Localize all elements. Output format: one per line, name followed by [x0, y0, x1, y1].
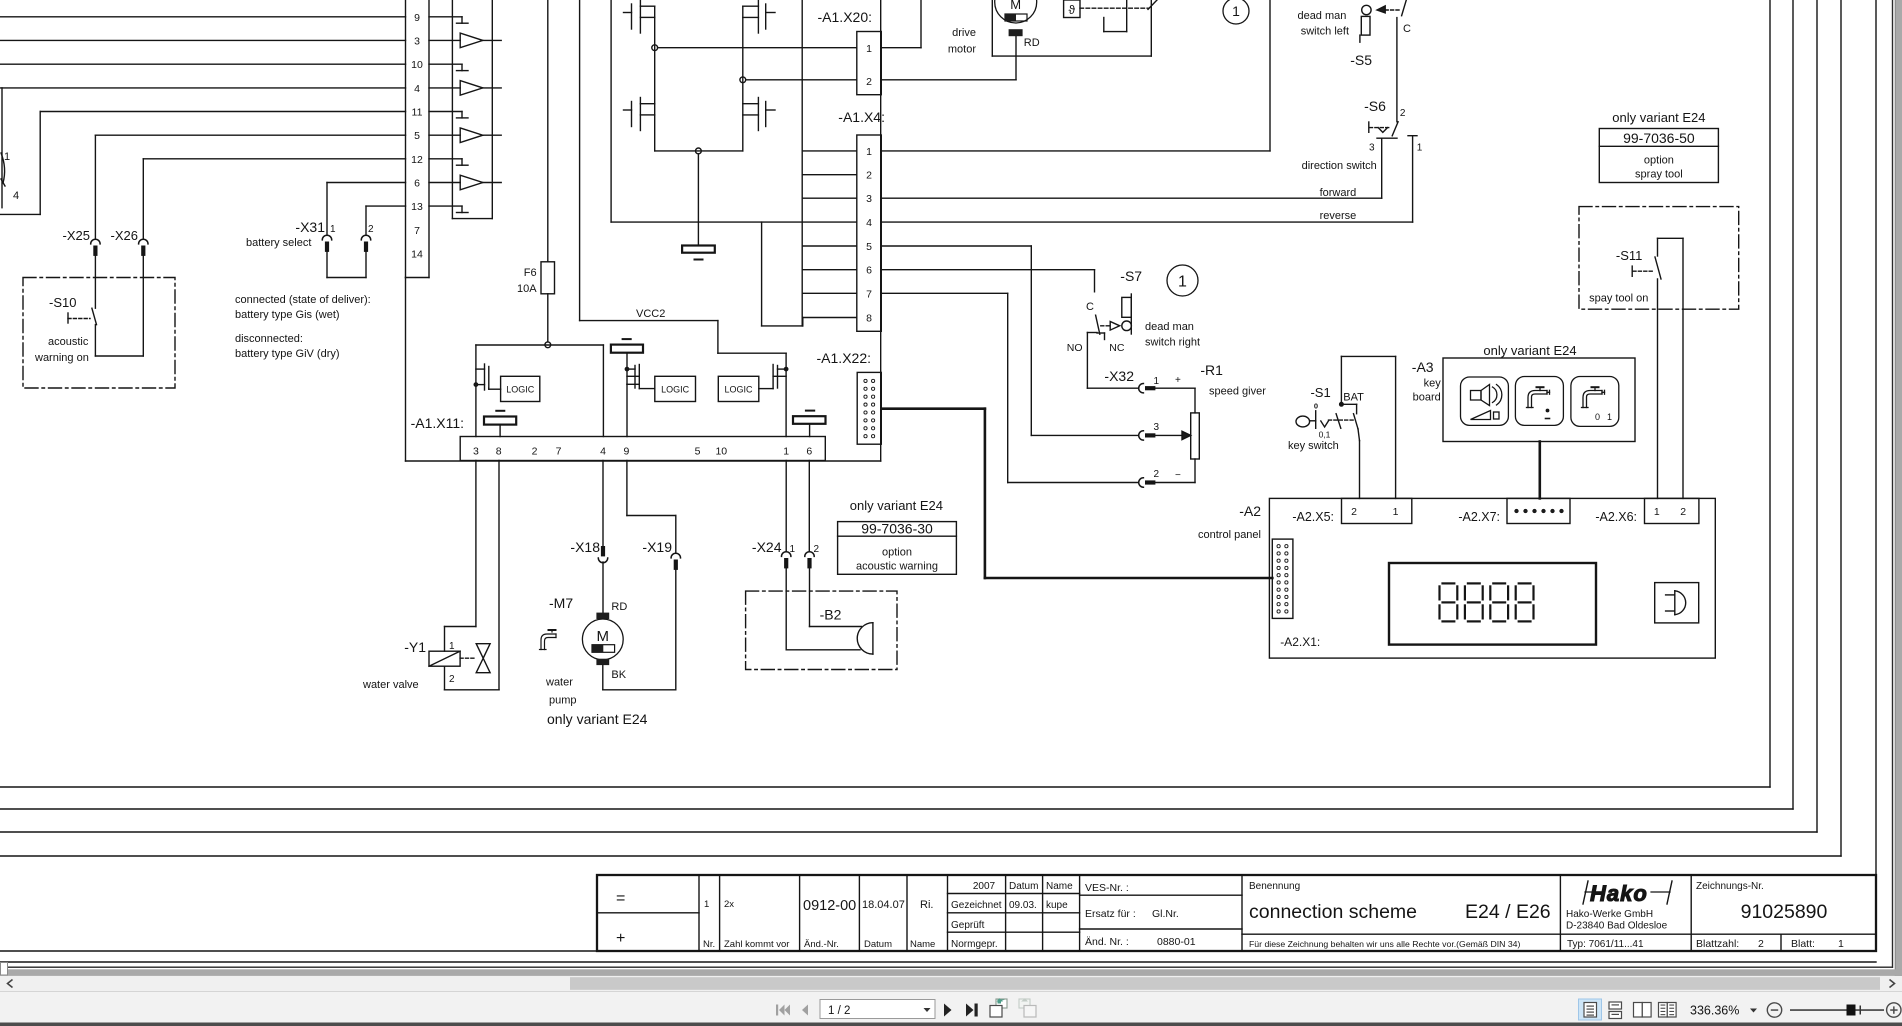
wire A1.X11 pin3 to Y1 [445, 461, 476, 652]
motor M7 water pump [545, 595, 627, 707]
svg-text:M: M [1010, 0, 1021, 12]
wire internal bus (cut at top) [611, 0, 803, 326]
svg-text:connection scheme: connection scheme [1249, 901, 1417, 923]
svg-text:Änd.-Nr.: Änd.-Nr. [804, 939, 839, 950]
keyboard button water dose [1515, 377, 1563, 426]
svg-text:-A2: -A2 [1239, 503, 1261, 519]
wire X18 to M7 [602, 562, 604, 613]
svg-text:3: 3 [473, 446, 479, 458]
clamp symbol input pin 12 [429, 159, 468, 165]
svg-text:Gezeichnet: Gezeichnet [951, 900, 1002, 911]
logic block U3 [718, 376, 759, 401]
svg-text:1: 1 [1417, 143, 1423, 154]
svg-text:switch left: switch left [1301, 26, 1349, 38]
svg-text:RD: RD [611, 601, 627, 613]
svg-text:18.04.07: 18.04.07 [862, 899, 905, 911]
svg-text:6: 6 [806, 446, 812, 458]
svg-text:0880-01: 0880-01 [1157, 936, 1196, 948]
svg-text:acoustic warning: acoustic warning [856, 561, 938, 573]
svg-text:1: 1 [704, 899, 709, 910]
svg-text:spay tool on: spay tool on [1589, 293, 1648, 305]
svg-text:-A3: -A3 [1412, 359, 1434, 375]
svg-text:-X26: -X26 [111, 228, 138, 243]
svg-text:RD: RD [1024, 37, 1040, 49]
svg-text:2: 2 [866, 76, 872, 88]
svg-text:option: option [1644, 155, 1674, 167]
wire A1.X22 to A2.X1 (ribbon, thick) [881, 409, 1272, 578]
connector X32 [1104, 368, 1181, 487]
key switch S1 [1288, 385, 1364, 452]
connector A2.X7 [1458, 498, 1570, 524]
svg-text:Blatt:: Blatt: [1791, 938, 1815, 950]
svg-text:91025890: 91025890 [1741, 901, 1828, 923]
junction H-bridge left output [652, 45, 658, 51]
svg-text:5: 5 [695, 446, 701, 458]
svg-text:2: 2 [1351, 506, 1357, 518]
svg-text:BK: BK [611, 669, 626, 681]
border line 1 [0, 0, 1770, 787]
svg-text:disconnected:: disconnected: [235, 333, 303, 345]
wire pin4 net [0, 88, 406, 208]
svg-text:reverse: reverse [1320, 210, 1357, 222]
transistor logic cell 2 [625, 365, 655, 389]
wire A1.X4 pin7 to X32.2 [881, 293, 1007, 482]
svg-text:1: 1 [866, 146, 872, 158]
svg-text:1: 1 [1393, 506, 1399, 518]
wire A1.X20 pin1 to drive motor + [658, 0, 921, 48]
connector A1.X11 [411, 415, 826, 461]
buffer symbol input pin 4 [429, 81, 501, 96]
svg-text:Nr.: Nr. [703, 939, 715, 950]
svg-text:key: key [1424, 378, 1442, 390]
svg-text:09.03.: 09.03. [1009, 900, 1037, 911]
wire pin5 to X25 [95, 135, 405, 238]
horn B2 [820, 607, 873, 655]
svg-text:only variant E24: only variant E24 [850, 498, 943, 513]
wire X24.2 to B2 [810, 569, 862, 627]
transistor Q3 (H-bridge lower left) [624, 98, 655, 131]
svg-text:spray tool: spray tool [1635, 169, 1683, 181]
svg-text:Hako: Hako [1590, 881, 1648, 906]
wire A1.X11 pin3 drain line [475, 345, 477, 437]
wire right leg to A2.X6 pin2 [1682, 238, 1684, 498]
transistor logic cell 1 [474, 364, 500, 390]
svg-text:3: 3 [1369, 143, 1375, 154]
capacitor symbol C2 [611, 339, 643, 384]
relay coil Y1 water valve [362, 639, 460, 691]
indicator lamp icon on A2 [1655, 583, 1699, 623]
wire A1.X11 pin4 to X18 [602, 461, 604, 547]
clamp symbol input pin 13 [429, 206, 468, 212]
svg-text:-X31: -X31 [295, 219, 325, 235]
wire S1 to A2.X5 pin2 [1358, 429, 1360, 499]
svg-text:Name: Name [910, 939, 935, 950]
svg-text:LOGIC: LOGIC [724, 385, 753, 395]
capacitor symbol C3 [793, 411, 826, 437]
keyboard button water on/off [1571, 377, 1619, 427]
wire X32 pin2 to R1 bottom [1008, 459, 1195, 483]
wire S11 left leg to A2.X6 pin1 [1657, 279, 1659, 498]
svg-text:LOGIC: LOGIC [661, 385, 690, 395]
svg-text:-A2.X1:: -A2.X1: [1280, 635, 1320, 649]
svg-text:14: 14 [411, 248, 423, 260]
wire M7 BK to X19 [603, 570, 676, 690]
motor M (drive motor, top cut off) [948, 0, 1151, 56]
svg-text:4: 4 [866, 217, 872, 229]
7-segment digits [1440, 583, 1534, 621]
wire H-bridge bottom rail [655, 150, 743, 152]
svg-text:dead man: dead man [1297, 10, 1346, 22]
svg-text:-Y1: -Y1 [404, 639, 426, 655]
connector X26 [111, 228, 148, 256]
wire A1.X11 pin6 to X24.2 [808, 461, 810, 552]
connector X31 battery select [246, 219, 374, 252]
svg-text:Änd. Nr. :: Änd. Nr. : [1085, 936, 1129, 948]
wire ground lead [697, 154, 699, 246]
transistor Q1 (H-bridge upper left) [624, 0, 655, 33]
svg-text:Für diese Zeichnung behalten w: Für diese Zeichnung behalten wir uns all… [1249, 939, 1520, 949]
svg-text:Blattzahl:: Blattzahl: [1696, 938, 1739, 950]
svg-text:-X25: -X25 [63, 228, 90, 243]
wire pin10 net [0, 63, 406, 65]
svg-text:2: 2 [866, 170, 872, 182]
svg-text:=: = [616, 890, 625, 907]
svg-text:motor: motor [948, 44, 976, 56]
svg-text:-S1: -S1 [1310, 385, 1330, 400]
toolbar controls [776, 998, 1901, 1020]
connector A1.X22 [817, 350, 882, 444]
switch fragment at left page edge, contacts 1 and 4 [1, 151, 19, 202]
svg-text:-A2.X7:: -A2.X7: [1458, 510, 1500, 524]
svg-text:12: 12 [411, 154, 423, 166]
clamp symbol input pin 10 [429, 64, 468, 70]
svg-text:-B2: -B2 [820, 607, 842, 623]
switch S7 dead man switch right [1067, 268, 1200, 388]
connector X24 [752, 539, 820, 568]
svg-text:6: 6 [866, 265, 872, 277]
note circled 1 (top) [1223, 0, 1249, 24]
svg-text:board: board [1413, 392, 1441, 404]
svg-text:-X24: -X24 [752, 539, 782, 555]
switch S11 spray tool on [1589, 248, 1661, 305]
buffer symbol input pin 3 [429, 33, 501, 48]
wire pin9 net [0, 16, 406, 18]
svg-text:Benennung: Benennung [1249, 881, 1300, 892]
svg-text:battery select: battery select [246, 237, 311, 249]
connector A1.X4 [838, 109, 885, 331]
svg-text:option: option [882, 547, 912, 559]
svg-text:-A1.X11:: -A1.X11: [411, 415, 464, 431]
transistor logic cell 3 [759, 365, 788, 389]
svg-text:Ersatz für :: Ersatz für : [1085, 908, 1136, 920]
note circled 1 (near S7) [1167, 265, 1198, 296]
svg-text:1: 1 [330, 224, 336, 235]
switch S10 [34, 295, 97, 364]
svg-text:2x: 2x [724, 899, 734, 910]
wire internal vertical (cut at top) [801, 0, 803, 326]
svg-text:kupe: kupe [1046, 900, 1068, 911]
wire pin12 to X26 [143, 159, 405, 239]
wire A1.X4 pin1 (to top, cut) [881, 0, 1270, 151]
svg-text:0,1: 0,1 [1319, 430, 1331, 440]
svg-text:acoustic: acoustic [48, 336, 89, 348]
svg-text:-A1.X20:: -A1.X20: [818, 9, 872, 25]
svg-text:1: 1 [449, 641, 455, 652]
svg-text:10: 10 [715, 446, 727, 458]
wire S11 loop top [1658, 238, 1684, 256]
svg-text:1: 1 [1178, 274, 1187, 291]
svg-text:dead man: dead man [1145, 321, 1194, 333]
junction F6 to gate rail [545, 342, 551, 348]
wire X24.1 to B2 [786, 569, 860, 650]
svg-text:0: 0 [1595, 412, 1600, 422]
svg-text:BAT: BAT [1343, 392, 1364, 404]
svg-text:-A2.X5:: -A2.X5: [1292, 510, 1334, 524]
svg-text:only variant E24: only variant E24 [1612, 110, 1705, 125]
valve symbol (bowtie) [460, 644, 490, 673]
logic block U1 [501, 376, 540, 401]
svg-text:99-7036-50: 99-7036-50 [1623, 130, 1695, 146]
labels direction switch forward reverse [1302, 160, 1377, 222]
svg-text:forward: forward [1320, 187, 1357, 199]
svg-text:pump: pump [549, 695, 577, 707]
svg-text:-X32: -X32 [1104, 368, 1134, 384]
svg-text:Normgepr.: Normgepr. [951, 939, 998, 950]
border line 3 [0, 0, 1817, 832]
svg-text:2007: 2007 [973, 881, 996, 892]
svg-text:1: 1 [1607, 412, 1612, 422]
svg-text:speed giver: speed giver [1209, 386, 1266, 398]
wire pin3 net [0, 39, 406, 41]
svg-text:1: 1 [1232, 3, 1240, 19]
svg-text:Hako-Werke GmbH: Hako-Werke GmbH [1566, 909, 1653, 920]
wire pin13 to X31.2 [366, 206, 406, 234]
transistor Q2 (H-bridge upper right) [743, 0, 775, 33]
svg-text:2: 2 [1154, 469, 1160, 480]
wire S6 pin1 to reverse [1412, 136, 1414, 222]
connector X19 [642, 539, 680, 570]
wire A1.X4 pin6 to S7 common [881, 270, 1094, 292]
clamp symbol input pin 11 [429, 112, 468, 118]
svg-text:2: 2 [1680, 506, 1686, 518]
svg-text:-M7: -M7 [549, 595, 573, 611]
svg-text:5: 5 [866, 241, 872, 253]
svg-text:4: 4 [13, 190, 19, 202]
svg-text:−: − [1175, 470, 1181, 481]
buffer symbol input pin 6 [429, 175, 501, 190]
display 8888 on A2 [1389, 563, 1596, 645]
svg-text:1: 1 [1654, 506, 1660, 518]
svg-text:Datum: Datum [1009, 881, 1038, 892]
svg-text:1: 1 [4, 151, 10, 163]
option box spray tool with S11 [1579, 207, 1739, 310]
svg-text:F6: F6 [524, 267, 537, 279]
connector A1.X21 (left multi-pin connector, top cut off) [406, 0, 430, 278]
svg-text:water valve: water valve [362, 679, 419, 691]
svg-text:-S6: -S6 [1364, 98, 1386, 114]
wire S7 NO to X32 pin1 [1087, 387, 1138, 389]
fuse F6 10A [517, 0, 554, 342]
svg-text:Zahl kommt vor: Zahl kommt vor [724, 939, 789, 950]
svg-text:Zeichnungs-Nr.: Zeichnungs-Nr. [1696, 881, 1764, 892]
option box B2 acoustic warner [746, 591, 897, 669]
svg-text:battery type Gis (wet): battery type Gis (wet) [235, 309, 340, 321]
label box option acoustic warning 99-7036-30 [838, 498, 957, 574]
wire gate rail (A1.X11 pin4 up and over) [476, 345, 604, 437]
svg-text:VCC2: VCC2 [636, 308, 665, 320]
svg-text:3: 3 [414, 35, 420, 47]
junction H-bridge right output [740, 77, 746, 83]
connector X25 [63, 228, 101, 256]
connector A2.X5 [1292, 498, 1411, 524]
svg-text:-S11: -S11 [1616, 248, 1643, 263]
wire A3 keyboard to A2.X7 (thick) [1539, 442, 1542, 499]
svg-text:key switch: key switch [1288, 440, 1339, 452]
buffer symbol input pin 5 [429, 128, 501, 143]
svg-text:warning on: warning on [34, 352, 89, 364]
svg-text:-S10: -S10 [49, 295, 76, 310]
svg-text:9: 9 [623, 446, 629, 458]
svg-text:7: 7 [866, 288, 872, 300]
connector A2.X1 [1272, 539, 1320, 649]
option box acoustic warning with switch S10 [23, 278, 175, 389]
connector A1.X20 [818, 9, 882, 95]
svg-text:1: 1 [1838, 938, 1844, 950]
wire X19 to A1.X11 pin9 [627, 461, 676, 553]
connector X18 [570, 539, 607, 563]
svg-text:3: 3 [866, 193, 872, 205]
svg-text:3: 3 [1154, 422, 1160, 433]
svg-text:D-23840 Bad Oldesloe: D-23840 Bad Oldesloe [1566, 921, 1668, 932]
svg-text:+: + [616, 930, 625, 947]
svg-text:only variant E24: only variant E24 [1483, 343, 1576, 358]
svg-text:10A: 10A [517, 283, 537, 295]
thermal switch in drive motor [1064, 0, 1157, 32]
wire pin6 to X31.1 [327, 183, 406, 235]
title block texts [616, 881, 1844, 950]
wire A1.X4 internal stubs [802, 151, 857, 318]
svg-text:1: 1 [783, 446, 789, 458]
svg-text:0: 0 [1314, 402, 1318, 411]
svg-text:control panel: control panel [1198, 529, 1261, 541]
svg-text:2: 2 [368, 224, 374, 235]
svg-text:10: 10 [411, 59, 423, 71]
ground (battery minus) symbol [682, 246, 715, 260]
svg-text:4: 4 [600, 446, 606, 458]
svg-text:13: 13 [411, 201, 423, 213]
svg-text:8: 8 [496, 446, 502, 458]
wire A1.X11 pin1 (VCC2 down) [785, 369, 787, 436]
wire H-bridge right leg [742, 6, 744, 151]
junction H-bridge bottom to ground [696, 148, 702, 154]
svg-text:-A1.X4:: -A1.X4: [838, 109, 885, 125]
wire A1.X11 pin9 [626, 384, 628, 436]
wire S5 to S6 [1396, 18, 1398, 122]
svg-text:2: 2 [1400, 108, 1406, 119]
note battery select states [235, 294, 371, 360]
net VCC2 [580, 0, 787, 369]
svg-text:1: 1 [1154, 376, 1160, 387]
capacitor symbol C1 [484, 411, 516, 437]
switch S6 direction switch [1364, 98, 1423, 154]
svg-text:-A2.X6:: -A2.X6: [1595, 510, 1637, 524]
svg-text:-X18: -X18 [570, 539, 600, 555]
svg-text:8: 8 [866, 313, 872, 325]
svg-text:1 / 2: 1 / 2 [828, 1005, 850, 1017]
keyboard A3 box [1412, 343, 1635, 442]
wire X31 jumper loop [327, 252, 366, 278]
svg-text:Typ: 7061/11...41: Typ: 7061/11...41 [1567, 939, 1644, 950]
svg-text:+: + [1175, 375, 1181, 386]
svg-text:2: 2 [1758, 938, 1764, 950]
svg-text:Geprüft: Geprüft [951, 920, 985, 931]
connector A2.X6 [1595, 498, 1699, 524]
svg-text:connected (state of deliver):: connected (state of deliver): [235, 294, 371, 306]
svg-text:336.36%: 336.36% [1690, 1004, 1739, 1018]
input buffer / clamp symbol box on A1.X21 (inside A1) [452, 0, 492, 219]
wire A1.X4 pin5 to X32.3 [881, 246, 1031, 435]
svg-text:-S5: -S5 [1350, 52, 1372, 68]
svg-text:drive: drive [952, 27, 976, 39]
wire A1.X11 pin1 to X24.1 [785, 461, 787, 552]
svg-text:0912-00: 0912-00 [803, 898, 856, 914]
svg-text:LOGIC: LOGIC [506, 385, 535, 395]
wire A1.X20 pin2 to drive motor RD [746, 36, 1016, 80]
svg-text:VES-Nr. :: VES-Nr. : [1085, 882, 1129, 894]
svg-text:Datum: Datum [864, 939, 892, 950]
sheet outer edge [0, 961, 1876, 963]
svg-text:4: 4 [414, 83, 420, 95]
wire X32 pin1 to R1 top [1153, 388, 1196, 413]
svg-text:11: 11 [412, 107, 423, 119]
svg-text:C: C [1403, 23, 1411, 35]
svg-text:direction switch: direction switch [1302, 160, 1377, 172]
svg-text:6: 6 [414, 178, 420, 190]
svg-text:-A1.X22:: -A1.X22: [817, 350, 871, 366]
svg-text:1: 1 [866, 43, 872, 55]
svg-text:9: 9 [414, 12, 420, 24]
svg-text:99-7036-30: 99-7036-30 [861, 521, 933, 537]
label box option spray tool 99-7036-50 [1599, 110, 1718, 183]
transistor Q4 (H-bridge lower right) [743, 98, 775, 131]
wire X25 through S10 to X26 [95, 256, 143, 356]
resistor R1 speed giver (potentiometer) [1191, 362, 1267, 459]
wire A1.X4 pin3 forward net [881, 197, 1381, 199]
wire pin11 net [0, 112, 406, 215]
keyboard button horn [1461, 377, 1509, 425]
svg-text:-S7: -S7 [1120, 268, 1142, 284]
svg-text:ϑ: ϑ [1069, 3, 1076, 17]
faucet icon near M7 [540, 630, 557, 650]
svg-text:water: water [545, 677, 573, 689]
logo Hako [1583, 881, 1672, 906]
svg-text:C: C [1086, 301, 1094, 313]
border line 2 [0, 0, 1793, 809]
svg-text:switch right: switch right [1145, 337, 1200, 349]
svg-text:NO: NO [1067, 342, 1083, 354]
svg-text:2: 2 [814, 544, 820, 555]
svg-text:7: 7 [414, 225, 420, 237]
svg-text:E24 / E26: E24 / E26 [1465, 901, 1551, 923]
svg-text:M: M [597, 628, 610, 645]
wire H-bridge left leg [654, 6, 656, 151]
svg-text:7: 7 [556, 446, 562, 458]
svg-text:-X19: -X19 [642, 539, 672, 555]
logic block U2 [655, 376, 696, 401]
control panel A2 box [1198, 498, 1715, 658]
svg-text:-R1: -R1 [1200, 362, 1223, 378]
wire A1.X4 pin4 reverse net [881, 221, 1412, 223]
